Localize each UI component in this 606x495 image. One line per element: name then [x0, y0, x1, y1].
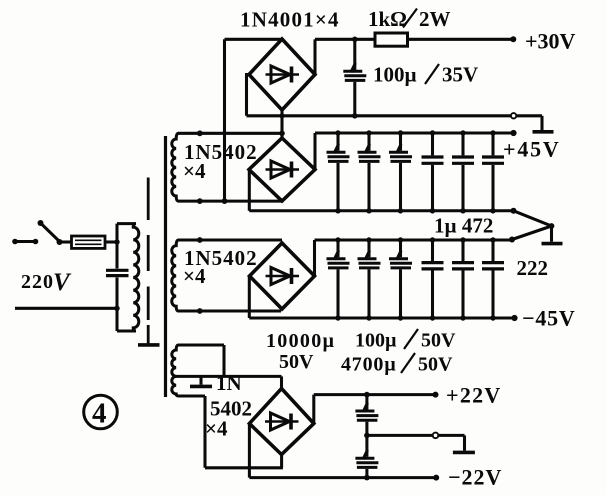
- winding C bottom wire: [179, 396, 283, 468]
- svg-text:×4: ×4: [205, 417, 228, 441]
- wire fuse to primary: [105, 239, 120, 244]
- AC input wire left stub: [12, 239, 38, 245]
- wire U1 bottom vertex down to bridge U2 top vertex: [279, 110, 285, 138]
- capacitor C8 electrolytic bank2: [327, 240, 350, 318]
- capacitor C0 across primary: [106, 224, 129, 331]
- transformer core solid line: [164, 136, 167, 397]
- text 220V: [21, 269, 72, 296]
- transformer core dashed line: [138, 178, 160, 345]
- winding C centre-tap wire to U4 top vertex: [174, 375, 282, 378]
- winding B bottom wire: [178, 308, 281, 314]
- svg-text:−45V: −45V: [522, 306, 576, 331]
- wire U1 right vertex up and right to +30V rail: [315, 39, 375, 74]
- svg-text:100µ: 100µ: [355, 330, 397, 352]
- wire U3 left vertex down to -45V rail: [248, 276, 251, 318]
- ground symbol mid (0V common): [512, 211, 563, 244]
- switch S1: [38, 220, 63, 245]
- wire U1 left vertex down to +45V terminal row: [247, 75, 251, 116]
- winding C top wire and step to bridge U4: [179, 345, 225, 376]
- text 100u / 50V: [355, 329, 456, 352]
- capacitor C3 electrolytic bank1: [358, 133, 381, 211]
- capacitor C6 film bank1: [452, 133, 474, 211]
- 0V rail (bottom bank top): [315, 237, 516, 243]
- capacitor C7 film bank1: [482, 133, 504, 211]
- svg-text:1µ 472: 1µ 472: [434, 214, 493, 238]
- diode symbol inside U3: [266, 268, 300, 285]
- svg-text:1kΩ: 1kΩ: [368, 7, 407, 31]
- text 1N5402 x4 (winding B): [183, 246, 258, 288]
- text 4700u / 50V: [341, 353, 453, 376]
- svg-text:1N4001×4: 1N4001×4: [240, 8, 340, 32]
- fuse FU: [72, 236, 106, 248]
- svg-text:35V: 35V: [442, 63, 478, 87]
- wire tap row down to U4 top vertex: [280, 376, 283, 388]
- wire +45V terminal row horizontal: [247, 113, 511, 119]
- 0V rail (top bank bottom): [249, 208, 516, 214]
- capacitor C13 film bank2: [482, 240, 504, 318]
- open terminal on +45V feed: [511, 113, 516, 118]
- winding A bottom wire: [178, 198, 282, 204]
- wire top-left to bridge U1: [225, 38, 283, 41]
- centre-tap ground mark: [190, 376, 212, 386]
- 0V mid wire and terminal: [364, 433, 475, 453]
- svg-text:50V: 50V: [421, 330, 456, 352]
- transformer secondary winding A: [172, 133, 179, 201]
- wire U3 right vertex up to 0V lower rail: [313, 240, 316, 276]
- svg-text:50V: 50V: [279, 351, 314, 373]
- wire U4 left vertex down to -22V rail: [249, 424, 439, 481]
- capacitor C10 electrolytic bank2: [389, 240, 412, 318]
- winding B top wire: [178, 237, 282, 243]
- wire vertical from top wire down to winding A bottom: [223, 39, 226, 201]
- text 1N 5402 x4 (winding C): [205, 371, 252, 441]
- wire from open terminal to chassis bar: [517, 116, 554, 132]
- wire U2 right vertex up to +45V rail: [313, 133, 316, 170]
- wire switch to fuse: [60, 240, 72, 243]
- wire resistor to +30V terminal: [352, 36, 516, 42]
- wire U4 right vertex up to +22V rail: [314, 392, 439, 424]
- -45V rail: [249, 315, 517, 321]
- svg-text:1N: 1N: [216, 371, 242, 395]
- svg-text:+45V: +45V: [503, 137, 561, 162]
- text 10000u 50V: [266, 330, 335, 373]
- circled number 4: [84, 395, 118, 429]
- capacitor C5 film bank1: [422, 133, 444, 211]
- svg-text:4700µ: 4700µ: [341, 354, 397, 376]
- svg-text:222: 222: [517, 256, 549, 280]
- svg-text:V: V: [53, 269, 72, 296]
- svg-text:×4: ×4: [183, 159, 206, 183]
- svg-text:10000µ: 10000µ: [266, 330, 335, 352]
- text 1kOhm / 2W: [368, 7, 451, 31]
- diode symbol inside U2: [266, 161, 300, 178]
- AC input bottom wire: [15, 306, 120, 311]
- bridge rectifier U3 1N5402 diamond: [250, 243, 315, 309]
- capacitor C2 electrolytic bank1: [327, 133, 350, 211]
- capacitor C9 electrolytic bank2: [358, 240, 381, 318]
- capacitor C1 100u/35V electrolytic: [343, 39, 366, 116]
- svg-text:×4: ×4: [183, 264, 206, 288]
- bridge rectifier U4 1N5402 diamond: [249, 389, 313, 455]
- svg-text:220: 220: [21, 271, 54, 293]
- svg-text:+22V: +22V: [446, 383, 502, 408]
- svg-text:−22V: −22V: [448, 465, 502, 490]
- capacitor C11 film bank2: [422, 240, 444, 318]
- svg-text:2W: 2W: [419, 7, 451, 31]
- resistor R1 1k 2W: [375, 33, 408, 46]
- svg-text:4: 4: [92, 398, 107, 430]
- capacitor C4 electrolytic bank1: [389, 133, 412, 211]
- text 100u / 35V: [373, 63, 478, 87]
- capacitor C14 electrolytic (+22V): [355, 395, 378, 457]
- transformer secondary winding B: [172, 240, 179, 311]
- transformer primary winding T1a: [117, 224, 139, 331]
- diode symbol inside U1: [266, 66, 300, 83]
- +45V capacitor bank top rail: [315, 130, 517, 136]
- text 1N5402 x4 (winding A): [183, 140, 258, 183]
- wire U2 left vertex down to 0V rail: [248, 170, 251, 211]
- transformer secondary winding C: [172, 345, 179, 396]
- winding A top wire: [178, 130, 282, 136]
- bridge rectifier U1 1N4001 diamond: [249, 39, 315, 110]
- svg-text:+30V: +30V: [525, 29, 576, 54]
- diode symbol inside U4: [265, 413, 299, 430]
- capacitor C12 film bank2: [452, 240, 474, 318]
- capacitor C15 electrolytic (-22V): [355, 450, 378, 478]
- bridge rectifier U2 1N5402 diamond: [249, 138, 315, 201]
- svg-text:50V: 50V: [418, 354, 453, 376]
- svg-text:100µ: 100µ: [373, 63, 417, 87]
